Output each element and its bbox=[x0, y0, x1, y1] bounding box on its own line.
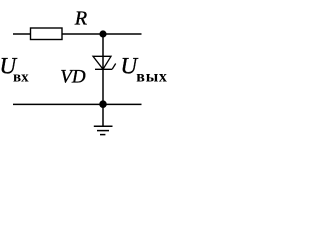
wire resistor to right end bbox=[62, 33, 142, 35]
ground bar 2 bbox=[97, 130, 109, 132]
zener diode VD cathode bend tick bbox=[112, 64, 116, 70]
zener diode VD triangle (anode) bbox=[93, 56, 111, 69]
node junction bottom bbox=[99, 100, 107, 108]
svg-text:VD: VD bbox=[60, 67, 86, 88]
wire vertical through diode to ground bbox=[102, 34, 104, 126]
svg-text:R: R bbox=[74, 9, 88, 30]
zener diode VD cathode bar bbox=[95, 68, 112, 70]
resistor R bbox=[31, 28, 63, 40]
wire bottom rail bbox=[13, 103, 142, 105]
node junction top bbox=[99, 30, 106, 37]
svg-text:вых: вых bbox=[136, 69, 167, 86]
svg-text:вх: вх bbox=[13, 70, 29, 86]
ground bar 3 bbox=[100, 134, 105, 136]
ground bar 1 bbox=[94, 125, 113, 127]
wire top-left input segment bbox=[13, 33, 30, 35]
